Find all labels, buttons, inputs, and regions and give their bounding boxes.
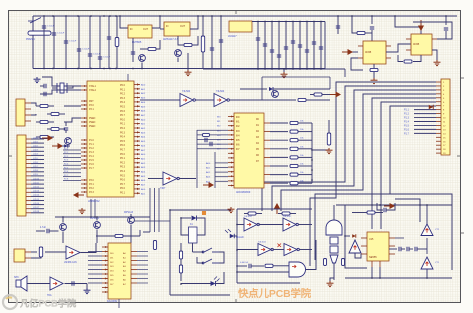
svg-text:P1.6: P1.6 bbox=[89, 164, 94, 166]
wire cap-bank drop 3 bbox=[271, 22, 273, 70]
pin U8 left pin 13 bbox=[228, 171, 234, 173]
wire R2 bbox=[140, 48, 148, 50]
svg-text:P0.5: P0.5 bbox=[120, 174, 126, 177]
svg-text:C 10uF: C 10uF bbox=[69, 41, 77, 43]
inverter U12 bbox=[163, 172, 179, 185]
wire dome feed bbox=[333, 205, 335, 220]
pwr arrow inverter block bbox=[275, 204, 279, 214]
pin U5 pins bbox=[406, 38, 411, 40]
IC U11 DAC bbox=[108, 243, 131, 299]
wire u11 top feed bbox=[139, 230, 141, 236]
pin J2 pin 13 bbox=[26, 187, 31, 189]
capacitor C29 bbox=[72, 281, 74, 286]
pin J5 pin 15 bbox=[436, 136, 441, 138]
wire U4 left loop bbox=[351, 58, 363, 70]
pin J2 pin 8 bbox=[26, 167, 31, 169]
svg-text:P0.0: P0.0 bbox=[120, 187, 126, 190]
pin U6 right pin 11 bbox=[134, 127, 140, 129]
transistor Q2 bbox=[175, 50, 182, 57]
wire br top rail bbox=[336, 204, 452, 206]
wire J2 net 12 bbox=[31, 183, 44, 185]
pin J1 pins bbox=[25, 102, 31, 104]
wire q5 bbox=[96, 217, 98, 221]
pin U11 left pin 1 bbox=[102, 246, 108, 248]
wire J5 stub 11 bbox=[414, 121, 436, 123]
pin U6 right pin 14 bbox=[134, 140, 140, 142]
svg-text:P0.1: P0.1 bbox=[120, 192, 126, 195]
wire vertical x203 bbox=[202, 16, 204, 69]
wire bus net 6 bbox=[381, 102, 436, 229]
pin U6 right pin 13 bbox=[134, 136, 140, 138]
wire J2 net 1 bbox=[31, 138, 44, 140]
amp A0 up-triangle left of 555 bbox=[349, 240, 361, 253]
capacitor C33 bbox=[399, 247, 401, 252]
pin J5 pin 13 bbox=[436, 128, 441, 130]
pin U8 left pin 11 bbox=[228, 162, 234, 164]
pin U6 right pin 8 bbox=[134, 114, 140, 116]
pin U11 right pin 4 bbox=[131, 264, 137, 266]
wire U5 lower bbox=[413, 55, 421, 62]
wire R7 left bbox=[398, 55, 403, 62]
switch S2 bbox=[202, 259, 219, 264]
svg-text:IN: IN bbox=[166, 25, 169, 28]
wire ADC left vertical bbox=[196, 130, 198, 188]
wire mid loop bbox=[262, 76, 330, 78]
wire bmr bottom bbox=[237, 282, 300, 284]
wire 555 right nets bbox=[389, 248, 395, 250]
pin U11 right pin 7 bbox=[131, 278, 137, 280]
label U6 pin names right bbox=[120, 84, 126, 195]
resistor R21 bbox=[290, 173, 298, 176]
pin U6 left pin 8 bbox=[81, 125, 87, 127]
pin U6 left pin 11 bbox=[81, 147, 87, 149]
pin U6 left pin 15 bbox=[81, 163, 87, 165]
wire mcu left misc bbox=[62, 145, 70, 147]
IC U6 MCU AT89C52 bbox=[87, 81, 134, 197]
wire MCU left bus bbox=[63, 149, 81, 151]
svg-text:DAC0832: DAC0832 bbox=[107, 300, 118, 303]
pin U6 right pin 4 bbox=[134, 97, 140, 99]
label U11 inner bbox=[110, 252, 126, 286]
wire J2 net 4 bbox=[31, 150, 44, 152]
wire ladder net 6 bbox=[270, 165, 288, 167]
wire J2 net 11 bbox=[31, 179, 44, 181]
pin U6 left pin 16 bbox=[81, 167, 87, 169]
wire vertical x212 bbox=[211, 16, 213, 69]
wire a0 wiring bbox=[355, 253, 361, 258]
svg-text:P1.1: P1.1 bbox=[404, 109, 410, 112]
wire q6 to relay block bbox=[134, 220, 170, 222]
wire u12 in bbox=[148, 178, 163, 180]
wire bus net 5 bbox=[372, 98, 436, 229]
wire bmr left rail bbox=[236, 209, 238, 283]
svg-text:74LS04: 74LS04 bbox=[258, 242, 266, 244]
wire bus net 1 bbox=[310, 82, 436, 266]
pin U11 right pin 2 bbox=[131, 255, 137, 257]
IC U8 ADC0809 bbox=[234, 113, 264, 188]
resistor R22 bbox=[290, 182, 298, 185]
svg-text:LCD8: LCD8 bbox=[33, 170, 38, 172]
svg-text:LCD14: LCD14 bbox=[33, 195, 39, 197]
svg-text:P0.0: P0.0 bbox=[120, 118, 126, 121]
svg-text:4N35: 4N35 bbox=[365, 50, 372, 54]
svg-text:LCD4: LCD4 bbox=[33, 154, 38, 156]
pin U11 right pin 3 bbox=[131, 260, 137, 262]
wire u9 in bbox=[45, 251, 66, 253]
svg-text:P0.4: P0.4 bbox=[120, 101, 126, 104]
label U6 pin names left bbox=[89, 85, 97, 194]
wire ladder out 6 bbox=[298, 165, 312, 167]
diode D1 red bbox=[429, 105, 434, 110]
transistor Q6 bbox=[128, 217, 135, 224]
wire u12 out bbox=[179, 178, 196, 180]
pin J2 pin 18 bbox=[26, 208, 31, 210]
opamp U10 bbox=[50, 277, 63, 290]
svg-text:PhotoD: PhotoD bbox=[236, 236, 244, 239]
pin U6 right pin 10 bbox=[134, 123, 140, 125]
buffer U7A bbox=[180, 94, 195, 107]
wire J2 net 7 bbox=[31, 163, 44, 165]
svg-text:4N35: 4N35 bbox=[413, 42, 420, 46]
capacitor C2 bbox=[52, 33, 56, 35]
svg-text:P2.0: P2.0 bbox=[64, 148, 68, 150]
wire R5 stub bbox=[352, 16, 357, 33]
svg-text:P3.1: P3.1 bbox=[89, 184, 94, 186]
relay K1 bbox=[189, 227, 198, 243]
pin J2 pin 2 bbox=[26, 142, 31, 144]
svg-text:P1.1: P1.1 bbox=[89, 144, 94, 146]
pin U6 right pin 6 bbox=[134, 105, 140, 107]
buzzer dome bbox=[326, 220, 342, 235]
power marker bbox=[202, 211, 206, 215]
wire u10 drop bbox=[86, 284, 88, 289]
capacitor C30 bbox=[249, 264, 251, 269]
svg-text:P2.1: P2.1 bbox=[64, 152, 68, 154]
resistor R11 bbox=[51, 127, 59, 130]
ground bl2 bbox=[84, 288, 91, 294]
wire J2 net 17 bbox=[31, 204, 44, 206]
capacitor C17 bbox=[298, 45, 302, 47]
capacitor C20 bbox=[319, 47, 323, 49]
pin J5 pin 9 bbox=[436, 113, 441, 115]
resistor R1 bbox=[115, 38, 119, 47]
wire cap bank top rail bbox=[252, 21, 325, 23]
svg-text:LCD11: LCD11 bbox=[33, 182, 39, 184]
pin J5 pin 19 bbox=[436, 152, 441, 154]
resistor R14 bbox=[314, 93, 322, 96]
svg-text:P0.6: P0.6 bbox=[120, 110, 126, 113]
pin U6 left pin 13 bbox=[81, 155, 87, 157]
pin U11 right pin 8 bbox=[131, 282, 137, 284]
capacitor C13 bbox=[270, 50, 274, 52]
resistor R7 bbox=[404, 60, 412, 63]
pin J2 pin 5 bbox=[26, 154, 31, 156]
pin U8 left pin 8 bbox=[228, 148, 234, 150]
svg-text:LCD9: LCD9 bbox=[33, 174, 38, 176]
pin U11 left pin 4 bbox=[102, 260, 108, 262]
wire bl top rail bbox=[55, 216, 150, 218]
wire q6 down bbox=[130, 225, 132, 244]
wire reg1 gnd drop bbox=[132, 38, 134, 62]
wire U11 left bus bbox=[88, 251, 102, 253]
svg-text:TDA: TDA bbox=[47, 294, 52, 297]
wire Q2 to ground bbox=[177, 58, 179, 63]
ground xtal bbox=[34, 77, 41, 83]
pin U8 right pin 2 bbox=[264, 131, 270, 133]
diode D10 small bbox=[64, 144, 68, 148]
pin U8 left pin 1 bbox=[228, 116, 234, 118]
optocoupler U4 bbox=[363, 41, 386, 64]
resistor R3 bbox=[184, 43, 192, 46]
svg-text:P0.0: P0.0 bbox=[120, 153, 126, 156]
pin J2 pin 16 bbox=[26, 200, 31, 202]
wire R12 leads bbox=[36, 136, 40, 138]
pin U6 right pin 1 bbox=[134, 84, 140, 86]
svg-text:OUT: OUT bbox=[180, 25, 186, 28]
capacitor C32 bbox=[384, 208, 386, 213]
svg-text:LCD13: LCD13 bbox=[33, 191, 39, 193]
resistor R28 bbox=[248, 212, 256, 215]
wire bm bottom bbox=[170, 294, 230, 296]
svg-text:XTAL2: XTAL2 bbox=[89, 89, 97, 92]
capacitor C18 bbox=[305, 50, 309, 52]
wire ladder to R tall bbox=[312, 149, 329, 151]
svg-text:LCD3: LCD3 bbox=[33, 150, 38, 152]
wire ladder out 3 bbox=[298, 139, 312, 141]
svg-text:P0.1: P0.1 bbox=[120, 157, 126, 160]
pin U6 left pin 5 bbox=[81, 108, 87, 110]
svg-text:P2.8: P2.8 bbox=[64, 179, 68, 181]
label U8 inner bbox=[236, 117, 260, 163]
pin J5 pin 17 bbox=[436, 144, 441, 146]
svg-text:PRES.1: PRES.1 bbox=[26, 38, 36, 41]
pin U8 left pin 12 bbox=[228, 166, 234, 168]
wire vertical x117 bbox=[116, 16, 118, 38]
svg-text:LM1117: LM1117 bbox=[228, 35, 237, 38]
pin U6 right pin 9 bbox=[134, 118, 140, 120]
svg-text:LCD18: LCD18 bbox=[33, 211, 39, 213]
pin U6 left pin 4 bbox=[81, 104, 87, 106]
svg-text:C 10uF: C 10uF bbox=[57, 33, 65, 35]
pin U11 left pin 5 bbox=[102, 264, 108, 266]
capacitor C8 bbox=[131, 52, 135, 54]
capacitor C16 bbox=[291, 41, 295, 43]
wire chain vertical bbox=[426, 238, 428, 254]
wire led net bbox=[181, 283, 211, 285]
wire cap-bank drop 9 bbox=[313, 22, 315, 70]
connector J1 bbox=[16, 99, 25, 126]
svg-text:凡亿PCB学院: 凡亿PCB学院 bbox=[20, 298, 77, 309]
svg-text:LCD10: LCD10 bbox=[33, 178, 39, 180]
pin J2 pin 6 bbox=[26, 159, 31, 161]
svg-text:快点儿PCB学院: 快点儿PCB学院 bbox=[237, 287, 312, 300]
wire ladder out 4 bbox=[298, 148, 312, 150]
wire cap bank right bbox=[324, 22, 326, 70]
svg-text:MPSA13: MPSA13 bbox=[124, 211, 134, 214]
wire led out bbox=[216, 272, 225, 284]
resistor R24 pot bbox=[39, 247, 42, 257]
pin U6 right pin 24 bbox=[134, 184, 140, 186]
wire br lower rail bbox=[345, 277, 452, 279]
wire a1 top bbox=[426, 205, 428, 224]
wire J5 stub 9 bbox=[414, 113, 436, 115]
wire J2 net 2 bbox=[31, 142, 44, 144]
pin U4 pins bbox=[358, 45, 363, 47]
pin U11 left pin 7 bbox=[102, 273, 108, 275]
pin U8 right pin 1 bbox=[264, 122, 270, 124]
resistor R30 bbox=[367, 211, 375, 214]
pin U11 left pin 11 bbox=[102, 291, 108, 293]
pin J5 pin 3 bbox=[436, 89, 441, 91]
svg-text:RST: RST bbox=[89, 101, 94, 103]
wire ladder net 8 bbox=[270, 182, 288, 184]
marker red x bbox=[278, 244, 282, 248]
svg-text:P0.4: P0.4 bbox=[120, 136, 126, 139]
resistor R35 bbox=[203, 133, 210, 136]
wire r14 leads bbox=[310, 94, 314, 96]
wire cap-bank drop 5 bbox=[285, 22, 287, 70]
resistor R20 bbox=[290, 164, 298, 167]
wire xtal bottom bbox=[40, 90, 81, 94]
pin J5 pin 18 bbox=[436, 148, 441, 150]
capacitor C23 bbox=[444, 28, 448, 30]
pin J2 pin 3 bbox=[26, 146, 31, 148]
pin U6 right pin 21 bbox=[134, 171, 140, 173]
svg-text:P2.4: P2.4 bbox=[64, 164, 68, 166]
wire bus net 3 bbox=[272, 90, 436, 211]
photodiode D5 bbox=[230, 234, 235, 239]
capacitor C3 bbox=[64, 41, 68, 43]
svg-text:P1.3: P1.3 bbox=[404, 117, 410, 120]
wire J2 net 16 bbox=[31, 200, 44, 202]
speaker LS1 bbox=[16, 276, 27, 291]
pin J2 pin 7 bbox=[26, 163, 31, 165]
svg-text:P1.5: P1.5 bbox=[89, 160, 94, 162]
wire J5 stub 10 bbox=[414, 117, 436, 119]
svg-text:LCD0: LCD0 bbox=[33, 137, 38, 139]
wire c32 net bbox=[377, 203, 383, 210]
wire ADC mid wires bbox=[197, 129, 228, 131]
wire U5 right loop bbox=[413, 22, 452, 39]
wire gnd stub bbox=[283, 69, 285, 72]
wire bm vertical main bbox=[169, 210, 171, 295]
wire r30 leads bbox=[352, 212, 367, 214]
svg-text:P2.3: P2.3 bbox=[64, 160, 68, 162]
svg-text:P3.2: P3.2 bbox=[89, 188, 94, 190]
resistor R26 bbox=[179, 251, 182, 259]
wire bottom rail of input section bbox=[33, 68, 325, 70]
transistor Q1 bbox=[139, 55, 146, 62]
buffer U7B bbox=[214, 94, 229, 107]
wire vertical x221 bbox=[220, 16, 222, 69]
pin J5 pin 7 bbox=[436, 105, 441, 107]
svg-text:C 10uF: C 10uF bbox=[103, 57, 111, 59]
wire vertical drop 4 bbox=[78, 16, 80, 69]
resistor R16 bbox=[290, 130, 298, 133]
wire ladder out 8 bbox=[298, 182, 312, 184]
svg-text:OUT: OUT bbox=[143, 28, 149, 31]
pin U6 left pin 9 bbox=[81, 139, 87, 141]
capacitor C24 bbox=[44, 84, 46, 89]
wire C22 drop bbox=[371, 16, 373, 24]
pin U6 left pin 7 bbox=[81, 121, 87, 123]
svg-text:AT89C52: AT89C52 bbox=[88, 199, 100, 203]
pin J2 pin 4 bbox=[26, 150, 31, 152]
pin U8 right pin 4 bbox=[264, 148, 270, 150]
wire q4 bbox=[62, 217, 64, 223]
wire ladder net 4 bbox=[270, 148, 288, 150]
pin J5 pin 11 bbox=[436, 121, 441, 123]
wire a2 bottom bbox=[426, 269, 428, 278]
capacitor C12 bbox=[263, 44, 267, 46]
pwr arrow br bbox=[384, 204, 394, 208]
pin J5 pin 4 bbox=[436, 93, 441, 95]
wire R8 leads bbox=[36, 105, 40, 107]
inverter U13D bbox=[284, 244, 299, 256]
svg-text:LM7805: LM7805 bbox=[132, 40, 142, 44]
svg-text:P3.0: P3.0 bbox=[89, 180, 94, 182]
resistor R15 bbox=[290, 121, 298, 124]
wire u10 out bbox=[65, 283, 88, 285]
wire top-right feed bbox=[337, 16, 339, 34]
svg-text:P0.0: P0.0 bbox=[120, 84, 126, 87]
wire 555 left rail bbox=[345, 205, 367, 268]
svg-text:P0.5: P0.5 bbox=[120, 140, 126, 143]
wire vertical drop 6 bbox=[99, 16, 101, 69]
pin U8 right pin 7 bbox=[264, 174, 270, 176]
wire ADC lower wires bbox=[215, 162, 228, 164]
resistor R12 bbox=[40, 135, 48, 138]
wire C23 bbox=[445, 16, 447, 25]
pin J2 pin 19 bbox=[26, 212, 31, 214]
pin J2 pin 9 bbox=[26, 171, 31, 173]
amp A1 up-triangle bbox=[421, 224, 433, 236]
wire J5 stub 12 bbox=[414, 124, 436, 126]
capacitor C15 bbox=[284, 47, 288, 49]
pin J2 pin 10 bbox=[26, 175, 31, 177]
svg-text:P0.4: P0.4 bbox=[120, 170, 126, 173]
wire y1 links bbox=[52, 87, 57, 89]
svg-text:P0.6: P0.6 bbox=[120, 144, 126, 147]
wire reg1 input bbox=[120, 16, 128, 28]
pin J5 pin 14 bbox=[436, 132, 441, 134]
wire and out bbox=[306, 240, 316, 270]
svg-text:0.047uF: 0.047uF bbox=[240, 262, 249, 264]
wire and in bbox=[237, 271, 289, 273]
voltage regulator U3 bbox=[229, 21, 252, 32]
optocoupler U5 bbox=[411, 34, 432, 55]
wire J2 net 19 bbox=[31, 212, 44, 214]
wire J2 net 8 bbox=[31, 167, 44, 169]
svg-text:PSEN: PSEN bbox=[89, 122, 96, 124]
svg-text:P0.2: P0.2 bbox=[120, 161, 126, 164]
wire cap-bank drop 8 bbox=[306, 22, 308, 70]
wire ladder net 2 bbox=[270, 131, 288, 133]
connector J3 bbox=[14, 249, 25, 262]
svg-text:P0.3: P0.3 bbox=[120, 131, 126, 134]
wire MCU vcc stub bbox=[127, 74, 129, 81]
watermark gray logo circle bbox=[3, 295, 17, 309]
svg-text:P0.2: P0.2 bbox=[120, 127, 126, 130]
pin J2 pin 12 bbox=[26, 183, 31, 185]
pin J3 pins bbox=[25, 251, 31, 253]
wire vertical drop 3 bbox=[65, 16, 67, 69]
pin U8 left pin 14 bbox=[228, 175, 234, 177]
svg-text:4.7uF: 4.7uF bbox=[40, 227, 46, 229]
pin J5 pin 1 bbox=[436, 81, 441, 83]
switch S1 bbox=[202, 248, 219, 253]
capacitor C14 bbox=[277, 55, 281, 57]
